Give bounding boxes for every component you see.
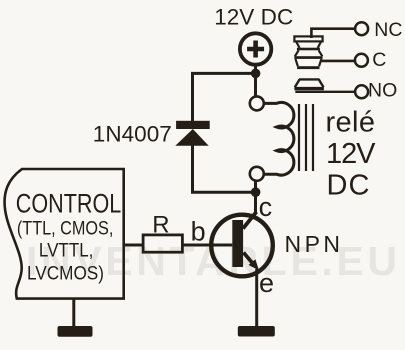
ground bar left: [58, 326, 93, 337]
svg-text:R: R: [152, 211, 169, 238]
relay contact NC lever wire: [311, 29, 354, 38]
CONTROL box: [5, 169, 124, 299]
wire supply to junction: [254, 65, 257, 97]
ground bar right: [238, 326, 275, 337]
terminal circle NO: [355, 85, 368, 98]
svg-text:INVENTARLE.EU: INVENTARLE.EU: [26, 238, 397, 284]
relay contact upper trapezoid: [296, 41, 321, 48]
relay contact bottom taper: [296, 59, 322, 66]
junction dot collector: [251, 187, 261, 197]
wire emitter to ground: [255, 269, 258, 327]
coil terminal node top: [250, 96, 264, 110]
wire junction to diode branch: [193, 73, 256, 121]
svg-text:NC: NC: [374, 19, 402, 41]
junction dot top: [251, 69, 261, 79]
wire resistor to base: [182, 244, 232, 247]
diode D1 cathode bar: [176, 121, 210, 129]
wire coil bottom to junction: [254, 181, 257, 214]
transistor collector stroke: [243, 212, 256, 229]
svg-text:CONTROL: CONTROL: [16, 189, 122, 219]
relay contact NO bottom bar: [294, 87, 324, 90]
relay core lines: [299, 104, 313, 171]
relay coil L1: [264, 102, 294, 175]
svg-text:12V: 12V: [326, 138, 376, 170]
relay contact lower trapezoid: [295, 50, 322, 56]
wire diode anode to collector junction: [193, 145, 256, 192]
relay contact bottom bar: [297, 66, 319, 69]
svg-text:DC: DC: [327, 170, 370, 202]
relay contact NO trapezoid: [295, 79, 324, 87]
coil terminal node bottom: [250, 167, 264, 181]
supply terminal +12V: [240, 33, 271, 64]
relay contact waist bar: [297, 48, 320, 51]
svg-text:12V DC: 12V DC: [214, 5, 293, 30]
wire control to ground: [72, 299, 75, 328]
diode D1 triangle: [175, 129, 208, 146]
svg-text:(TTL, CMOS,: (TTL, CMOS,: [17, 219, 114, 240]
transistor emitter stroke: [244, 253, 253, 264]
svg-text:C: C: [372, 49, 386, 71]
transistor Q1 circle: [211, 215, 273, 277]
svg-text:relé: relé: [326, 107, 376, 139]
transistor base bar: [232, 220, 243, 267]
svg-text:NO: NO: [368, 80, 397, 102]
terminal circle NC: [355, 22, 368, 35]
svg-text:1N4007: 1N4007: [93, 121, 172, 146]
wire NO: [295, 91, 355, 93]
transistor emitter arrow: [249, 259, 260, 270]
svg-text:c: c: [259, 192, 273, 222]
resistor R: [143, 235, 182, 252]
wire C: [321, 60, 355, 63]
relay contact top plate: [294, 36, 322, 41]
terminal circle C: [355, 54, 368, 67]
relay contact wide bar C: [294, 56, 322, 59]
label relé 12V DC: [326, 107, 377, 202]
wire control to resistor: [124, 244, 144, 247]
